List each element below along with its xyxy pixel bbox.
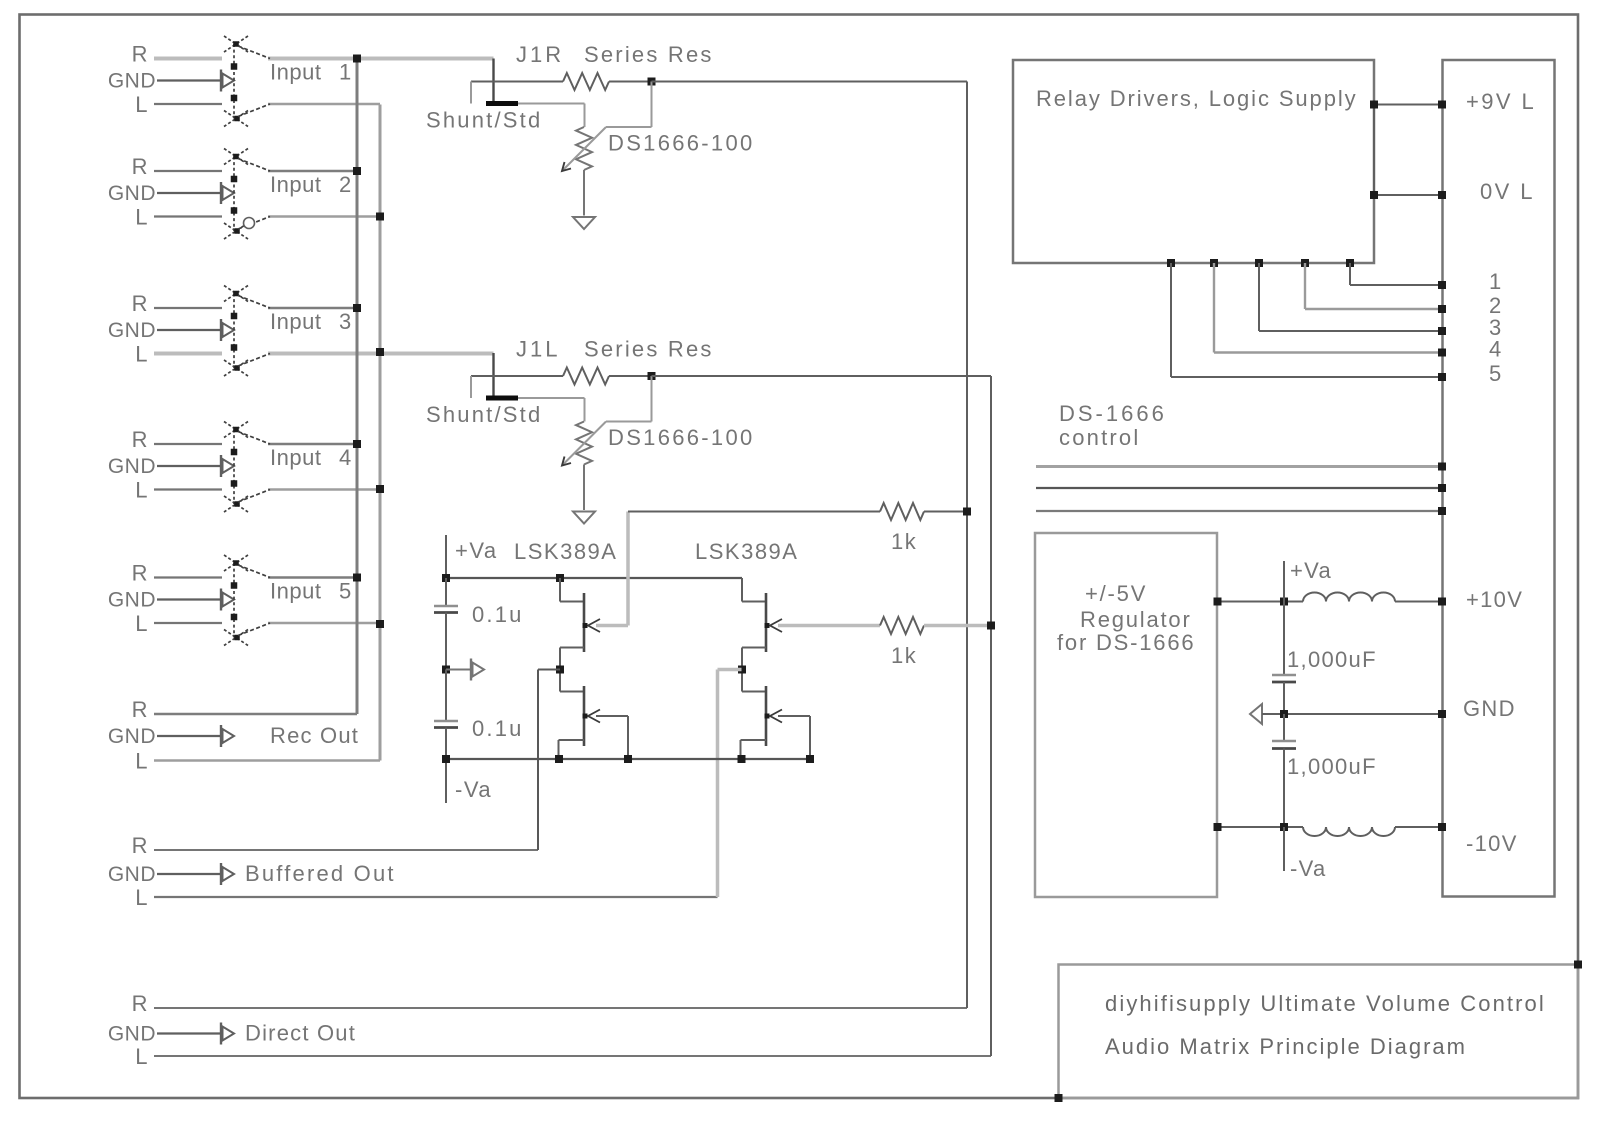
svg-text:GND: GND — [108, 589, 156, 612]
svg-text:Audio Matrix Principle Diagram: Audio Matrix Principle Diagram — [1105, 1034, 1467, 1059]
svg-text:DS-1666: DS-1666 — [1059, 401, 1167, 426]
svg-text:GND: GND — [1463, 696, 1516, 721]
svg-text:L: L — [135, 1044, 149, 1069]
svg-text:GND: GND — [108, 182, 156, 205]
svg-text:1,000uF: 1,000uF — [1287, 647, 1377, 672]
svg-text:L: L — [135, 478, 149, 503]
svg-text:GND: GND — [108, 1023, 156, 1046]
svg-text:+10V: +10V — [1466, 587, 1523, 612]
svg-text:GND: GND — [108, 319, 156, 342]
svg-text:J1R: J1R — [516, 42, 564, 67]
svg-text:GND: GND — [108, 70, 156, 93]
svg-text:Input: Input — [270, 309, 321, 334]
svg-text:LSK389A: LSK389A — [695, 539, 798, 564]
svg-text:GND: GND — [108, 455, 156, 478]
svg-text:R: R — [132, 154, 149, 179]
svg-text:Input: Input — [270, 579, 321, 604]
svg-text:control: control — [1059, 425, 1140, 450]
svg-text:L: L — [135, 342, 149, 367]
svg-text:Buffered Out: Buffered Out — [245, 861, 396, 886]
svg-text:Series Res: Series Res — [584, 337, 714, 362]
svg-text:Series Res: Series Res — [584, 42, 714, 67]
svg-text:5: 5 — [339, 579, 351, 604]
svg-text:0.1u: 0.1u — [472, 602, 524, 627]
svg-text:+/-5V: +/-5V — [1085, 581, 1147, 606]
svg-text:1k: 1k — [891, 529, 917, 554]
svg-text:R: R — [132, 561, 149, 586]
svg-text:4: 4 — [1489, 337, 1503, 362]
svg-text:Shunt/Std: Shunt/Std — [426, 108, 542, 133]
svg-text:R: R — [132, 697, 149, 722]
svg-text:1: 1 — [339, 60, 351, 85]
svg-text:Relay Drivers, Logic Supply: Relay Drivers, Logic Supply — [1036, 86, 1358, 111]
svg-text:-10V: -10V — [1466, 831, 1518, 856]
svg-text:L: L — [135, 205, 149, 230]
svg-text:L: L — [135, 92, 149, 117]
svg-text:Direct Out: Direct Out — [245, 1021, 356, 1046]
svg-text:GND: GND — [108, 725, 156, 748]
svg-text:R: R — [132, 42, 149, 67]
svg-text:for DS-1666: for DS-1666 — [1057, 630, 1195, 655]
svg-text:J1L: J1L — [516, 337, 560, 362]
svg-text:Input: Input — [270, 445, 321, 470]
svg-text:DS1666-100: DS1666-100 — [608, 425, 755, 450]
svg-text:Input: Input — [270, 60, 321, 85]
svg-text:2: 2 — [339, 172, 351, 197]
svg-text:+Va: +Va — [455, 538, 498, 563]
svg-text:3: 3 — [339, 309, 351, 334]
svg-text:4: 4 — [339, 445, 351, 470]
svg-text:R: R — [132, 291, 149, 316]
svg-text:L: L — [135, 611, 149, 636]
svg-text:L: L — [135, 885, 149, 910]
svg-text:1: 1 — [1489, 269, 1503, 294]
svg-text:R: R — [132, 833, 149, 858]
svg-text:R: R — [132, 427, 149, 452]
svg-text:Shunt/Std: Shunt/Std — [426, 402, 542, 427]
svg-text:-Va: -Va — [455, 777, 492, 802]
svg-text:+Va: +Va — [1290, 558, 1332, 583]
svg-text:L: L — [135, 749, 149, 774]
svg-text:-Va: -Va — [1290, 856, 1327, 881]
svg-text:1k: 1k — [891, 643, 917, 668]
svg-text:DS1666-100: DS1666-100 — [608, 131, 755, 156]
svg-text:0V L: 0V L — [1480, 179, 1535, 204]
svg-text:GND: GND — [108, 863, 156, 886]
svg-text:+9V L: +9V L — [1466, 89, 1536, 114]
svg-text:LSK389A: LSK389A — [514, 539, 617, 564]
svg-text:5: 5 — [1489, 361, 1503, 386]
svg-text:0.1u: 0.1u — [472, 716, 524, 741]
svg-text:diyhifisupply Ultimate Volume: diyhifisupply Ultimate Volume Control — [1105, 991, 1546, 1016]
svg-text:Rec Out: Rec Out — [270, 723, 359, 748]
svg-text:R: R — [132, 991, 149, 1016]
svg-text:1,000uF: 1,000uF — [1287, 754, 1377, 779]
svg-text:Input: Input — [270, 172, 321, 197]
svg-text:Regulator: Regulator — [1080, 607, 1192, 632]
